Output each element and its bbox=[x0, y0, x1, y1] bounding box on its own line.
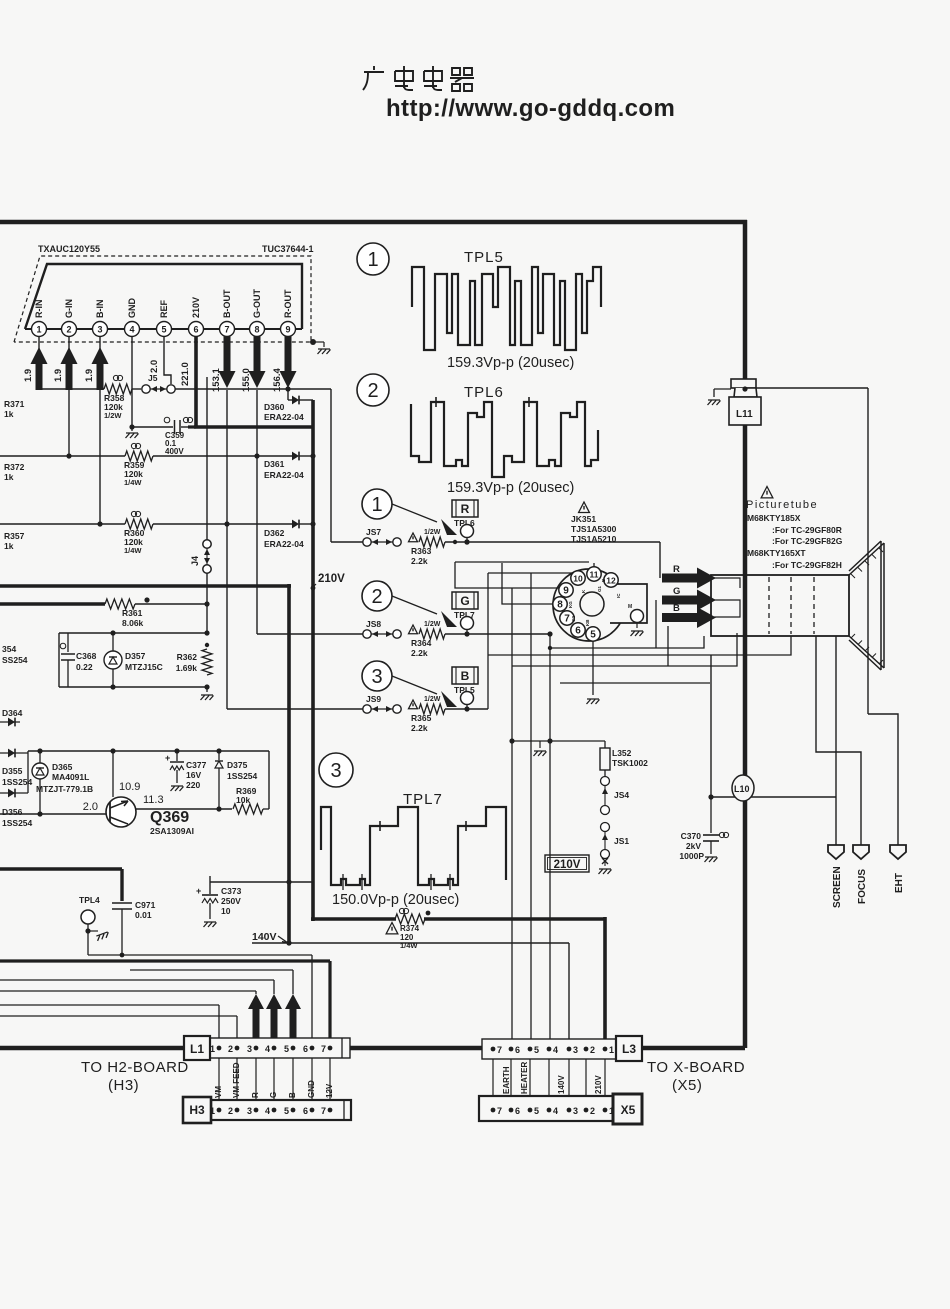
svg-text:Picturetube: Picturetube bbox=[746, 499, 818, 511]
svg-text:TXAUC120Y55: TXAUC120Y55 bbox=[38, 244, 100, 254]
svg-text:D355: D355 bbox=[2, 766, 23, 776]
svg-text:JK351: JK351 bbox=[571, 514, 596, 524]
svg-text:1k: 1k bbox=[4, 409, 14, 419]
svg-text:GND: GND bbox=[307, 1080, 316, 1098]
svg-text:SS254: SS254 bbox=[2, 655, 28, 665]
svg-text:0.22: 0.22 bbox=[76, 662, 93, 672]
svg-text:2: 2 bbox=[367, 380, 378, 402]
svg-text:6: 6 bbox=[303, 1106, 308, 1116]
svg-text:L10: L10 bbox=[734, 784, 750, 794]
svg-text:2.0: 2.0 bbox=[149, 360, 160, 373]
svg-text:B: B bbox=[673, 603, 680, 614]
svg-text:R-OUT: R-OUT bbox=[283, 289, 293, 318]
svg-text:MTZJ15C: MTZJ15C bbox=[125, 662, 163, 672]
svg-text:R-IN: R-IN bbox=[34, 300, 44, 319]
svg-text:TJS1A5210: TJS1A5210 bbox=[571, 534, 617, 544]
svg-text:(H3): (H3) bbox=[108, 1077, 139, 1094]
svg-text:IC: IC bbox=[616, 593, 621, 598]
svg-text:6: 6 bbox=[193, 325, 198, 335]
svg-text:R365: R365 bbox=[411, 713, 432, 723]
svg-text:FOCUS: FOCUS bbox=[857, 869, 868, 904]
svg-text:JS8: JS8 bbox=[366, 619, 381, 629]
svg-text:VM FEED: VM FEED bbox=[232, 1062, 241, 1098]
svg-text:2.2k: 2.2k bbox=[411, 556, 428, 566]
svg-text:JS4: JS4 bbox=[614, 790, 629, 800]
svg-text:http://www.go-gddq.com: http://www.go-gddq.com bbox=[386, 95, 675, 122]
svg-text:TPL7: TPL7 bbox=[403, 791, 443, 808]
svg-text:B: B bbox=[288, 1092, 297, 1098]
svg-text:3: 3 bbox=[330, 760, 341, 782]
svg-text:+: + bbox=[196, 886, 201, 896]
svg-text:8: 8 bbox=[557, 600, 563, 611]
svg-text:10: 10 bbox=[221, 906, 231, 916]
svg-text::For TC-29GF80R: :For TC-29GF80R bbox=[772, 525, 842, 535]
svg-text:EARTH: EARTH bbox=[502, 1066, 511, 1094]
svg-text:10: 10 bbox=[573, 574, 583, 584]
svg-text:TJS1A5300: TJS1A5300 bbox=[571, 524, 617, 534]
svg-text:1SS254: 1SS254 bbox=[227, 771, 258, 781]
svg-text:1/4W: 1/4W bbox=[400, 941, 418, 950]
svg-text:TSK1002: TSK1002 bbox=[612, 758, 648, 768]
svg-text:4: 4 bbox=[129, 325, 134, 335]
svg-text:1.69k: 1.69k bbox=[176, 663, 198, 673]
svg-text:+: + bbox=[165, 753, 170, 763]
svg-text:210V: 210V bbox=[191, 297, 201, 318]
svg-text:1: 1 bbox=[210, 1106, 215, 1116]
svg-text:2: 2 bbox=[371, 586, 382, 608]
svg-text:D360: D360 bbox=[264, 402, 285, 412]
svg-text:TPL5: TPL5 bbox=[464, 249, 504, 266]
svg-text:210V: 210V bbox=[594, 1075, 603, 1094]
svg-text:R: R bbox=[461, 502, 470, 516]
svg-text:1k: 1k bbox=[4, 541, 14, 551]
svg-text:GND: GND bbox=[127, 298, 137, 319]
svg-text:ERA22-04: ERA22-04 bbox=[264, 412, 304, 422]
svg-text:140V: 140V bbox=[557, 1075, 566, 1094]
svg-text:400V: 400V bbox=[165, 447, 184, 456]
svg-text:6: 6 bbox=[515, 1106, 520, 1116]
svg-text:1: 1 bbox=[371, 494, 382, 516]
svg-text:5: 5 bbox=[590, 630, 596, 641]
svg-text:C377: C377 bbox=[186, 760, 207, 770]
svg-text:159.3Vp-p (20usec): 159.3Vp-p (20usec) bbox=[447, 355, 574, 371]
svg-text:3: 3 bbox=[573, 1106, 578, 1116]
svg-text:1/2W: 1/2W bbox=[424, 621, 441, 628]
svg-text:G-OUT: G-OUT bbox=[252, 289, 262, 318]
svg-text:X5: X5 bbox=[621, 1103, 636, 1117]
svg-text:MA4091L: MA4091L bbox=[52, 772, 89, 782]
svg-text:C370: C370 bbox=[681, 831, 702, 841]
svg-text:HEATER: HEATER bbox=[520, 1061, 529, 1094]
svg-text::For TC-29GF82H: :For TC-29GF82H bbox=[772, 560, 842, 570]
svg-text:7: 7 bbox=[321, 1106, 326, 1116]
svg-text:KG: KG bbox=[568, 601, 573, 608]
svg-text:5: 5 bbox=[534, 1106, 539, 1116]
svg-text:R362: R362 bbox=[177, 652, 198, 662]
svg-text:2.2k: 2.2k bbox=[411, 723, 428, 733]
svg-text:9: 9 bbox=[285, 325, 290, 335]
svg-text:3: 3 bbox=[247, 1044, 252, 1054]
svg-text:2: 2 bbox=[66, 325, 71, 335]
svg-text:1.9: 1.9 bbox=[53, 369, 64, 382]
svg-text:R374: R374 bbox=[400, 924, 420, 933]
svg-text:354: 354 bbox=[2, 644, 16, 654]
svg-text:4: 4 bbox=[553, 1106, 558, 1116]
svg-text:JS7: JS7 bbox=[366, 527, 381, 537]
svg-text:EHT: EHT bbox=[894, 873, 905, 893]
svg-text:150.0Vp-p (20usec): 150.0Vp-p (20usec) bbox=[332, 892, 459, 908]
svg-text:ERA22-04: ERA22-04 bbox=[264, 539, 304, 549]
svg-text:5: 5 bbox=[534, 1045, 539, 1055]
svg-text:11: 11 bbox=[590, 570, 599, 580]
svg-text:140V: 140V bbox=[252, 931, 277, 943]
svg-text:210V: 210V bbox=[554, 859, 581, 871]
svg-text:C368: C368 bbox=[76, 651, 97, 661]
svg-text:D357: D357 bbox=[125, 651, 146, 661]
svg-text:1/4W: 1/4W bbox=[124, 546, 142, 555]
svg-text:MTZJT-779.1B: MTZJT-779.1B bbox=[36, 784, 93, 794]
svg-text:7: 7 bbox=[321, 1044, 326, 1054]
svg-text:L352: L352 bbox=[612, 748, 632, 758]
svg-text:ERA22-04: ERA22-04 bbox=[264, 470, 304, 480]
svg-text:1/2W: 1/2W bbox=[104, 411, 122, 420]
svg-text:TPL6: TPL6 bbox=[464, 384, 504, 401]
svg-text:R361: R361 bbox=[122, 608, 143, 618]
svg-text:J5: J5 bbox=[148, 373, 158, 383]
svg-text:1/2W: 1/2W bbox=[424, 529, 441, 536]
svg-text:3: 3 bbox=[573, 1045, 578, 1055]
svg-text:G2: G2 bbox=[571, 615, 576, 622]
svg-text:10.9: 10.9 bbox=[119, 781, 140, 793]
svg-text:R: R bbox=[251, 1092, 260, 1098]
svg-text:7: 7 bbox=[564, 614, 570, 625]
svg-text:D361: D361 bbox=[264, 459, 285, 469]
svg-text:(X5): (X5) bbox=[672, 1077, 702, 1094]
svg-text:2: 2 bbox=[228, 1044, 233, 1054]
svg-text:L3: L3 bbox=[622, 1042, 636, 1056]
svg-text:JS1: JS1 bbox=[614, 836, 629, 846]
svg-text:REF: REF bbox=[159, 299, 169, 318]
svg-text:221.0: 221.0 bbox=[180, 362, 191, 386]
svg-text:2.0: 2.0 bbox=[83, 801, 98, 813]
svg-text:5: 5 bbox=[284, 1044, 289, 1054]
svg-text:M: M bbox=[628, 604, 632, 610]
svg-text:C971: C971 bbox=[135, 900, 156, 910]
svg-text:6: 6 bbox=[515, 1045, 520, 1055]
svg-text:8.06k: 8.06k bbox=[122, 618, 144, 628]
svg-text:D375: D375 bbox=[227, 760, 248, 770]
svg-text:1: 1 bbox=[210, 1044, 215, 1054]
svg-text:6: 6 bbox=[575, 626, 581, 637]
svg-text:8: 8 bbox=[254, 325, 259, 335]
svg-text:3: 3 bbox=[371, 666, 382, 688]
svg-text:6: 6 bbox=[303, 1044, 308, 1054]
svg-text:9: 9 bbox=[563, 586, 569, 597]
svg-text:L1: L1 bbox=[190, 1042, 204, 1056]
svg-text:G: G bbox=[269, 1092, 278, 1098]
svg-text:3: 3 bbox=[97, 325, 102, 335]
svg-text:1000P: 1000P bbox=[679, 851, 704, 861]
svg-text:1: 1 bbox=[36, 325, 41, 335]
svg-text:2: 2 bbox=[590, 1045, 595, 1055]
svg-text:G: G bbox=[673, 586, 680, 597]
svg-text:B: B bbox=[461, 669, 470, 683]
svg-text:1/2W: 1/2W bbox=[424, 696, 441, 703]
svg-text:D365: D365 bbox=[52, 762, 73, 772]
svg-text:M68KTY165XT: M68KTY165XT bbox=[747, 548, 806, 558]
svg-text:D362: D362 bbox=[264, 528, 285, 538]
svg-text:7: 7 bbox=[224, 325, 229, 335]
svg-text:R363: R363 bbox=[411, 546, 432, 556]
svg-text:1: 1 bbox=[367, 249, 378, 271]
svg-text:250V: 250V bbox=[221, 896, 241, 906]
svg-text::For TC-29GF82G: :For TC-29GF82G bbox=[772, 536, 843, 546]
svg-text:159.3Vp-p (20usec): 159.3Vp-p (20usec) bbox=[447, 480, 574, 496]
svg-text:TO X-BOARD: TO X-BOARD bbox=[647, 1059, 745, 1076]
svg-text:5: 5 bbox=[284, 1106, 289, 1116]
svg-text:220: 220 bbox=[186, 780, 200, 790]
svg-text:4: 4 bbox=[265, 1106, 270, 1116]
svg-text:Q369: Q369 bbox=[150, 809, 189, 826]
svg-text:C373: C373 bbox=[221, 886, 242, 896]
svg-text:G-IN: G-IN bbox=[64, 299, 74, 318]
svg-text:10k: 10k bbox=[236, 795, 250, 805]
svg-text:3: 3 bbox=[247, 1106, 252, 1116]
svg-text:0.01: 0.01 bbox=[135, 910, 152, 920]
svg-text:G: G bbox=[460, 594, 469, 608]
svg-text:TO H2-BOARD: TO H2-BOARD bbox=[81, 1059, 189, 1076]
svg-text:TUC37644-1: TUC37644-1 bbox=[262, 244, 314, 254]
svg-text:J4: J4 bbox=[190, 556, 200, 566]
svg-text:210V: 210V bbox=[318, 573, 345, 585]
svg-text:7: 7 bbox=[497, 1106, 502, 1116]
svg-text:G1: G1 bbox=[597, 585, 602, 592]
svg-text:4: 4 bbox=[553, 1045, 558, 1055]
svg-text:R371: R371 bbox=[4, 399, 25, 409]
svg-text:1.9: 1.9 bbox=[84, 369, 95, 382]
svg-text:1.9: 1.9 bbox=[23, 369, 34, 382]
svg-text:R: R bbox=[673, 564, 680, 575]
svg-text:JS9: JS9 bbox=[366, 694, 381, 704]
svg-text:M68KTY185X: M68KTY185X bbox=[747, 513, 801, 523]
svg-text:SCREEN: SCREEN bbox=[832, 866, 843, 908]
svg-text:R357: R357 bbox=[4, 531, 25, 541]
svg-text:KB: KB bbox=[585, 619, 590, 626]
svg-text:H3: H3 bbox=[189, 1103, 205, 1117]
svg-text:VM: VM bbox=[214, 1086, 223, 1098]
svg-text:7: 7 bbox=[497, 1045, 502, 1055]
svg-text:2SA1309AI: 2SA1309AI bbox=[150, 826, 194, 836]
svg-text:2kV: 2kV bbox=[686, 841, 701, 851]
svg-text:D356: D356 bbox=[2, 807, 23, 817]
svg-text:2: 2 bbox=[228, 1106, 233, 1116]
svg-text:1SS254: 1SS254 bbox=[2, 818, 33, 828]
svg-text:1: 1 bbox=[609, 1045, 614, 1055]
svg-text:B-IN: B-IN bbox=[95, 300, 105, 319]
svg-text:R372: R372 bbox=[4, 462, 25, 472]
svg-text:D364: D364 bbox=[2, 708, 23, 718]
svg-text:16V: 16V bbox=[186, 770, 201, 780]
svg-text:1/4W: 1/4W bbox=[124, 478, 142, 487]
svg-text:R364: R364 bbox=[411, 638, 432, 648]
svg-text:1: 1 bbox=[609, 1106, 614, 1116]
svg-text:4: 4 bbox=[265, 1044, 270, 1054]
svg-text:B-OUT: B-OUT bbox=[222, 289, 232, 318]
svg-text:2: 2 bbox=[590, 1106, 595, 1116]
svg-text:TPL4: TPL4 bbox=[79, 895, 100, 905]
svg-text:5: 5 bbox=[161, 325, 166, 335]
svg-text:2.2k: 2.2k bbox=[411, 648, 428, 658]
svg-text:12V: 12V bbox=[325, 1083, 334, 1098]
svg-text:1k: 1k bbox=[4, 472, 14, 482]
svg-text:12: 12 bbox=[606, 576, 616, 586]
svg-text:11.3: 11.3 bbox=[143, 794, 164, 806]
svg-text:L11: L11 bbox=[736, 409, 753, 420]
